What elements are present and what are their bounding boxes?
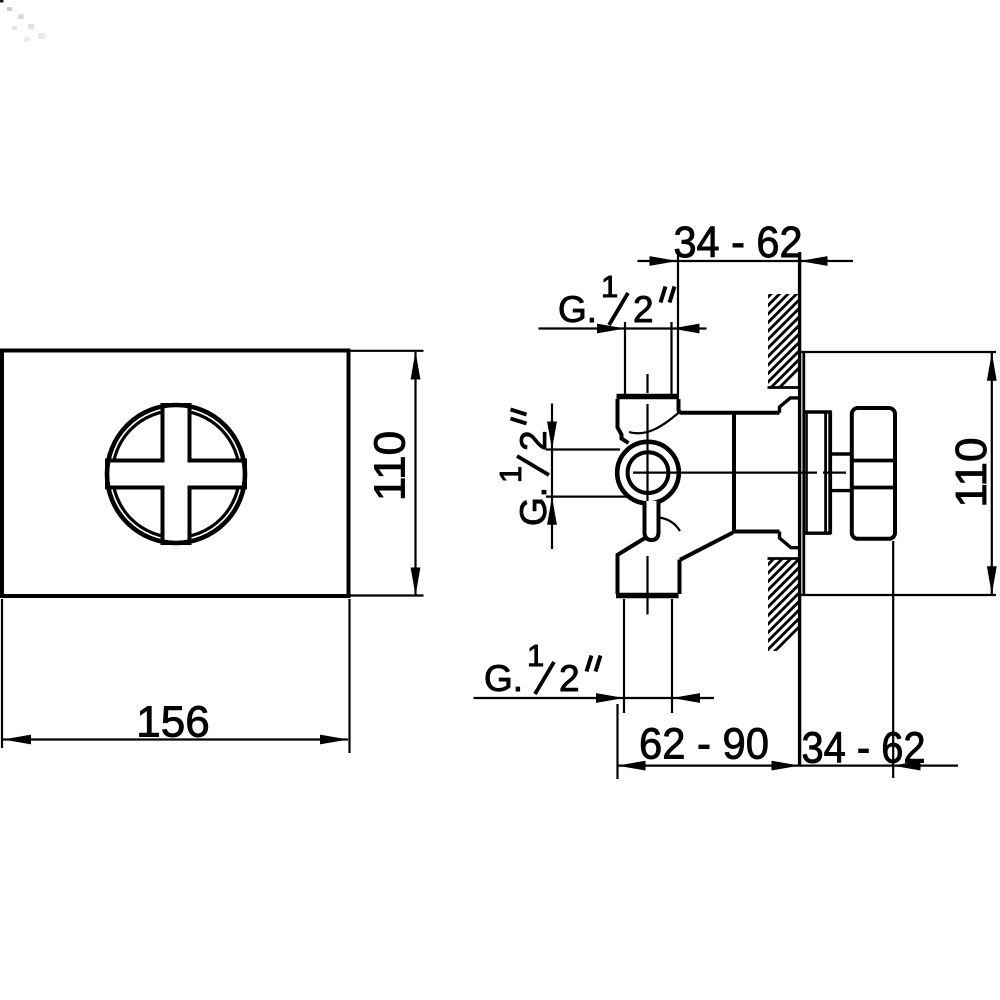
wall hole edge upper (768, 386, 800, 389)
cup front faces (824, 411, 827, 534)
housing front face (732, 411, 736, 534)
boss crosshair (633, 441, 679, 502)
svg-text:110: 110 (366, 431, 415, 501)
outlet boss outer circle (617, 442, 679, 504)
fillet curve top (629, 412, 680, 434)
drain stem below boss (645, 501, 659, 540)
svg-text:1: 1 (601, 269, 618, 304)
valve centerline horizontal (stem axis) (633, 472, 884, 474)
label G.1/2" top (558, 269, 675, 330)
body right outline + housing top edge (679, 399, 780, 413)
knob outer circle (107, 405, 245, 543)
svg-text:34 - 62: 34 - 62 (802, 724, 926, 773)
knob cross handle (107, 405, 245, 543)
scan corner artifact (0, 0, 45, 42)
bottom pipe left wall (616, 555, 620, 595)
knob inner circle (113, 411, 240, 538)
dimension G.1/2" (bottom pipe) (474, 599, 715, 713)
dimension G.1/2" (top pipe) (539, 322, 707, 395)
plate top edge + 110 extension (799, 351, 996, 353)
plate bottom edge + 110 extension (799, 594, 996, 596)
svg-text:2: 2 (559, 658, 580, 699)
cup bottom edge (804, 532, 831, 535)
svg-text:62 - 90: 62 - 90 (639, 720, 769, 769)
handle knob (side view) (852, 408, 895, 539)
svg-text:1: 1 (493, 466, 528, 483)
top pipe end cap (617, 394, 680, 400)
svg-text:110: 110 (947, 438, 996, 508)
faceplate rectangle 156x110 (2, 351, 349, 597)
svg-text:G.: G. (513, 487, 554, 526)
svg-text:34 - 62: 34 - 62 (674, 218, 803, 267)
bottom pipe end cap (616, 593, 679, 599)
valve stem (831, 452, 852, 455)
label G.1/2" bottom (484, 638, 601, 699)
cup top edge (804, 410, 831, 413)
body shoulder diagonal bottom-left (617, 538, 646, 556)
svg-text:2: 2 (633, 289, 654, 330)
svg-text:2: 2 (513, 430, 554, 451)
dimension 110 (front view, right side) (350, 351, 424, 596)
svg-text:G.: G. (558, 289, 597, 330)
body left outline (618, 399, 629, 443)
svg-text:G.: G. (484, 658, 523, 699)
wall hatching lower (651, 545, 882, 665)
svg-text:156: 156 (136, 698, 209, 747)
dimension 110 (side view right) (947, 353, 997, 595)
outlet boss inner circle (628, 452, 669, 493)
handle grip lines (852, 459, 895, 463)
svg-text:1: 1 (527, 638, 544, 673)
wall hole edge lower (768, 557, 800, 560)
mounting flange at wall (780, 398, 799, 413)
cover plate front line (802, 352, 805, 595)
funnel left wall (678, 560, 682, 595)
valve centerline vertical (pipe axis) (646, 374, 648, 615)
wall hatching upper (648, 290, 877, 400)
housing bottom edge (734, 530, 780, 534)
bottom dimension line 62-90 / 34-62 (618, 541, 959, 779)
dimension 156 (front view, bottom) (2, 599, 350, 753)
fillet curve bottom (659, 518, 680, 532)
funnel diagonal (680, 533, 733, 560)
dimension G.1/2" (side outlet, rotated) (546, 404, 627, 550)
escutcheon cup rear (805, 413, 807, 533)
dimension 34-62 (top) (638, 218, 854, 394)
label G.1/2" left rotated (493, 410, 554, 527)
wall face line (798, 252, 801, 766)
